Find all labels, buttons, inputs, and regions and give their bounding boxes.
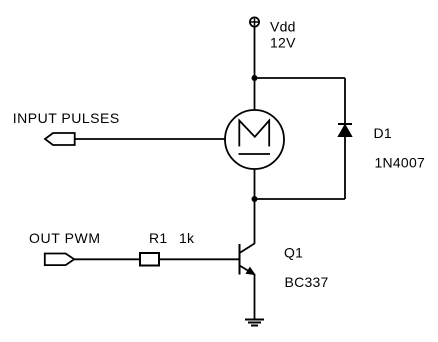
ground xyxy=(245,320,264,326)
wire out port to resistor xyxy=(74,258,140,260)
svg-text:Vdd: Vdd xyxy=(270,19,296,35)
power Vdd terminal xyxy=(250,17,259,26)
svg-text:INPUT PULSES: INPUT PULSES xyxy=(13,110,120,126)
svg-text:BC337: BC337 xyxy=(285,274,329,290)
wire motor bottom to junction and collector xyxy=(254,169,256,244)
resistor R1 xyxy=(140,253,159,266)
motor M xyxy=(225,110,284,169)
svg-text:1N4007: 1N4007 xyxy=(375,155,426,171)
diode D1 xyxy=(338,124,352,137)
wire top horizontal to diode branch xyxy=(255,77,346,79)
node junction top xyxy=(252,75,258,81)
svg-text:Q1: Q1 xyxy=(284,245,303,261)
wire input port to motor xyxy=(75,138,226,140)
port INPUT PULSES xyxy=(45,133,75,145)
wire diode branch vertical xyxy=(344,78,346,199)
svg-text:R1: R1 xyxy=(149,230,167,246)
svg-text:12V: 12V xyxy=(270,35,296,51)
port OUT PWM xyxy=(45,254,74,266)
svg-text:1k: 1k xyxy=(179,230,195,246)
transistor Q1 xyxy=(240,244,255,275)
wire resistor to transistor base xyxy=(159,258,240,260)
svg-text:OUT PWM: OUT PWM xyxy=(29,230,101,246)
wire emitter to ground xyxy=(254,275,256,320)
wire bottom horizontal from diode branch xyxy=(255,198,346,200)
svg-text:D1: D1 xyxy=(374,125,392,141)
node junction bottom xyxy=(252,196,258,202)
wire Vdd to motor top xyxy=(254,27,256,111)
